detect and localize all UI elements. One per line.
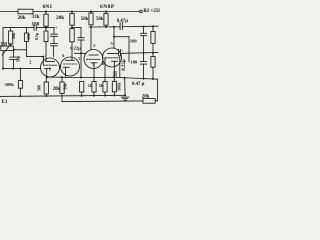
wire feedback top to node A (36, 27, 54, 29)
potentiometer RP 2M (1, 44, 14, 55)
svg-text:50k: 50k (81, 17, 89, 22)
resistor R5 (70, 29, 74, 61)
svg-text:56k: 56k (11, 32, 16, 39)
svg-text:50k: 50k (96, 17, 104, 22)
paper noise (0, 0, 1, 1)
node rail dots (19, 94, 126, 97)
wire grid drop V1a (42, 57, 44, 65)
svg-text:3: 3 (49, 66, 51, 71)
node rail x46 (45, 10, 47, 12)
resistor R14 1k (80, 82, 84, 96)
svg-text:50μ: 50μ (15, 55, 20, 62)
node tube V2b anode tap (113, 26, 115, 28)
resistor R10 50k anode V2a (81, 12, 93, 28)
wire wiper to grid (13, 50, 43, 57)
wire anode V2a (90, 27, 92, 50)
svg-text:180: 180 (32, 21, 40, 27)
wire node B to C2 (72, 28, 81, 38)
resistor R1 20k (18, 9, 34, 21)
svg-text:20k: 20k (18, 15, 26, 21)
svg-text:7: 7 (59, 64, 61, 69)
resistor R15 1k (92, 82, 96, 96)
svg-text:180: 180 (130, 39, 138, 44)
resistor R12 row1 (151, 26, 155, 52)
node D (105, 26, 107, 28)
node rail x91 (90, 10, 92, 12)
svg-text:2: 2 (29, 60, 31, 65)
tube V1a 6N1 (41, 58, 60, 77)
svg-text:50k: 50k (63, 83, 68, 90)
wire output line A (89, 26, 120, 28)
wire line B (117, 49, 159, 56)
resistor R8 500 cathode (44, 77, 48, 96)
node B (71, 27, 73, 29)
tube V2b 6N8P (103, 48, 122, 81)
capacitor C10 series (34, 25, 36, 30)
node bus x3 (2, 68, 4, 70)
resistor R7 56k (9, 28, 13, 46)
wire feedback top line (3, 27, 34, 29)
node bus x13.5 (12, 68, 14, 70)
resistor R3 (44, 31, 48, 62)
svg-text:500k: 500k (116, 82, 121, 91)
capacitor C3 bypass (10, 50, 17, 69)
wire ground drop (124, 78, 127, 96)
resistor R8b (24, 28, 28, 50)
wire ground rail (0, 95, 125, 96)
svg-text:20k: 20k (142, 95, 150, 100)
node wiper (13, 49, 15, 51)
svg-text:20k: 20k (56, 15, 64, 21)
svg-text:0.47 μ: 0.47 μ (132, 82, 145, 87)
wire branch to col129 (114, 37, 129, 62)
svg-text:180: 180 (130, 60, 138, 65)
svg-text:0.1μ: 0.1μ (34, 32, 39, 40)
resistor R9 20k feedback leg (60, 77, 64, 101)
wire output line C (81, 71, 158, 80)
svg-text:5: 5 (111, 41, 113, 46)
svg-text:6N8P: 6N8P (100, 4, 115, 10)
svg-text:E1: E1 (2, 100, 8, 105)
resistor R4 20k anode V1b (56, 12, 74, 29)
svg-text:0.22μ: 0.22μ (122, 59, 127, 70)
node bus x20.4 (19, 68, 21, 70)
ground symbol (121, 97, 129, 100)
tube V1b 6N1 (61, 57, 80, 77)
svg-text:0.22μ: 0.22μ (70, 45, 81, 50)
svg-text:33k: 33k (32, 14, 40, 20)
svg-text:1: 1 (78, 56, 80, 61)
node A (45, 27, 47, 29)
wire B+ rail (0, 11, 18, 13)
wire cathode bus 6N1 (46, 76, 82, 79)
capacitor C2 0.22u (78, 38, 84, 78)
svg-text:0.47μ: 0.47μ (117, 19, 128, 24)
node grid V1a (42, 56, 44, 58)
capacitor C5 row1 (140, 27, 146, 53)
wire feedback to line C (155, 79, 157, 101)
node branch (113, 36, 115, 38)
svg-text:500: 500 (37, 85, 42, 91)
resistor R13 row2 (151, 53, 155, 79)
node rail x106 (105, 10, 107, 12)
svg-text:6: 6 (62, 53, 64, 58)
node rail x72 (71, 10, 73, 12)
svg-text:+: + (121, 49, 123, 53)
terminal B2 (140, 10, 143, 13)
wire input bus (3, 68, 41, 70)
wire grid leak V2b (104, 58, 106, 82)
tube V2a 6N8P (84, 50, 103, 82)
wire B+ rail right (33, 11, 140, 13)
svg-text:2: 2 (93, 43, 95, 48)
svg-text:6: 6 (102, 61, 104, 66)
svg-text:500k: 500k (5, 82, 15, 87)
capacitor C1 double (51, 25, 58, 56)
wire anode V2b (113, 27, 115, 49)
resistor R11 50k anode V2b (96, 12, 108, 27)
svg-text:20k: 20k (53, 87, 61, 92)
wire feedback line (62, 100, 143, 103)
svg-text:6N1: 6N1 (43, 4, 53, 10)
resistor R2 33k anode load V1a (44, 12, 48, 32)
wire col 120 down (119, 56, 121, 78)
resistor R17 (112, 81, 116, 95)
resistor R19 500k (18, 69, 22, 97)
capacitor C4 0.47u (120, 23, 122, 30)
svg-text:B2 +250: B2 +250 (143, 9, 160, 14)
resistor R18 20k feedback (142, 95, 155, 104)
node E anode V2a (90, 26, 92, 28)
svg-text:3: 3 (92, 62, 94, 67)
resistor R16 (103, 82, 107, 96)
wire input left vertical (2, 28, 4, 69)
svg-text:2M: 2M (0, 42, 7, 47)
capacitor C8 row2 (140, 53, 146, 79)
wire line A right (123, 25, 158, 27)
wire grid V2a (75, 52, 87, 54)
